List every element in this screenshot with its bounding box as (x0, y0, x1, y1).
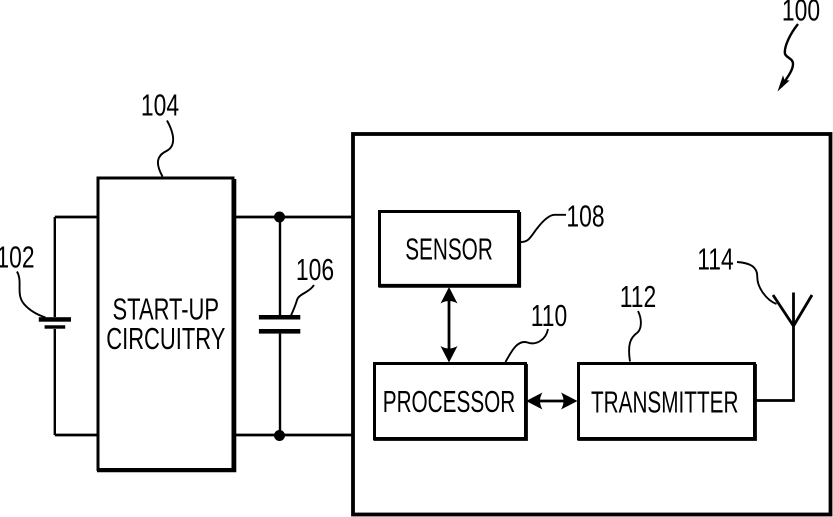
leader line 102 (17, 272, 46, 318)
svg-text:CIRCUITRY: CIRCUITRY (106, 321, 225, 355)
leader line 114 (737, 262, 777, 304)
svg-text:PROCESSOR: PROCESSOR (383, 384, 516, 419)
leader arrow to system 100 (778, 24, 799, 92)
wire: top rail left (battery to start-up) (55, 216, 98, 219)
svg-text:SENSOR: SENSOR (405, 232, 493, 267)
svg-text:104: 104 (141, 89, 179, 123)
leader line 110 (506, 329, 549, 362)
svg-text:114: 114 (697, 242, 733, 276)
svg-text:110: 110 (531, 299, 567, 333)
label 110 (531, 299, 567, 333)
arrow processor-transmitter (bidirectional) (526, 393, 578, 410)
leader line 108 (521, 215, 567, 242)
wire: bottom rail right (start-up to enclosure) (233, 434, 353, 437)
wire: capacitor bottom lead (279, 334, 281, 435)
wire: top rail right (start-up to enclosure) (233, 216, 353, 219)
wire: transmitter to antenna (755, 293, 794, 401)
arrow sensor-processor (bidirectional) (441, 287, 458, 363)
leader line 104 (158, 121, 173, 177)
battery 102 (39, 317, 71, 328)
label 112 (620, 280, 656, 314)
wire: bottom rail left (battery to start-up) (55, 434, 98, 437)
processor block 110 (374, 364, 527, 440)
junction dot bottom (274, 430, 285, 441)
wire: battery top lead (54, 217, 56, 317)
label 106 (296, 253, 334, 287)
label 104 (141, 89, 179, 123)
sensor block 108 (379, 212, 520, 286)
svg-text:106: 106 (296, 253, 334, 287)
svg-text:108: 108 (566, 200, 604, 234)
start-up circuitry block 104 (97, 178, 234, 470)
label 100 (782, 0, 820, 27)
antenna 114 (773, 295, 812, 326)
leader line 112 (629, 311, 641, 362)
svg-text:102: 102 (0, 241, 35, 275)
leader line 106 (291, 285, 314, 316)
label 102 (0, 241, 35, 275)
enclosure box (device outline) (353, 134, 831, 515)
wire: battery bottom lead (54, 329, 56, 435)
junction dot top (274, 212, 285, 223)
transmitter block 112 (578, 364, 756, 440)
svg-text:TRANSMITTER: TRANSMITTER (591, 384, 738, 419)
svg-text:112: 112 (620, 280, 656, 314)
capacitor 106 (259, 315, 300, 334)
wire: capacitor top lead (279, 217, 281, 315)
label 114 (697, 242, 733, 276)
label 108 (566, 200, 604, 234)
svg-text:100: 100 (782, 0, 820, 27)
